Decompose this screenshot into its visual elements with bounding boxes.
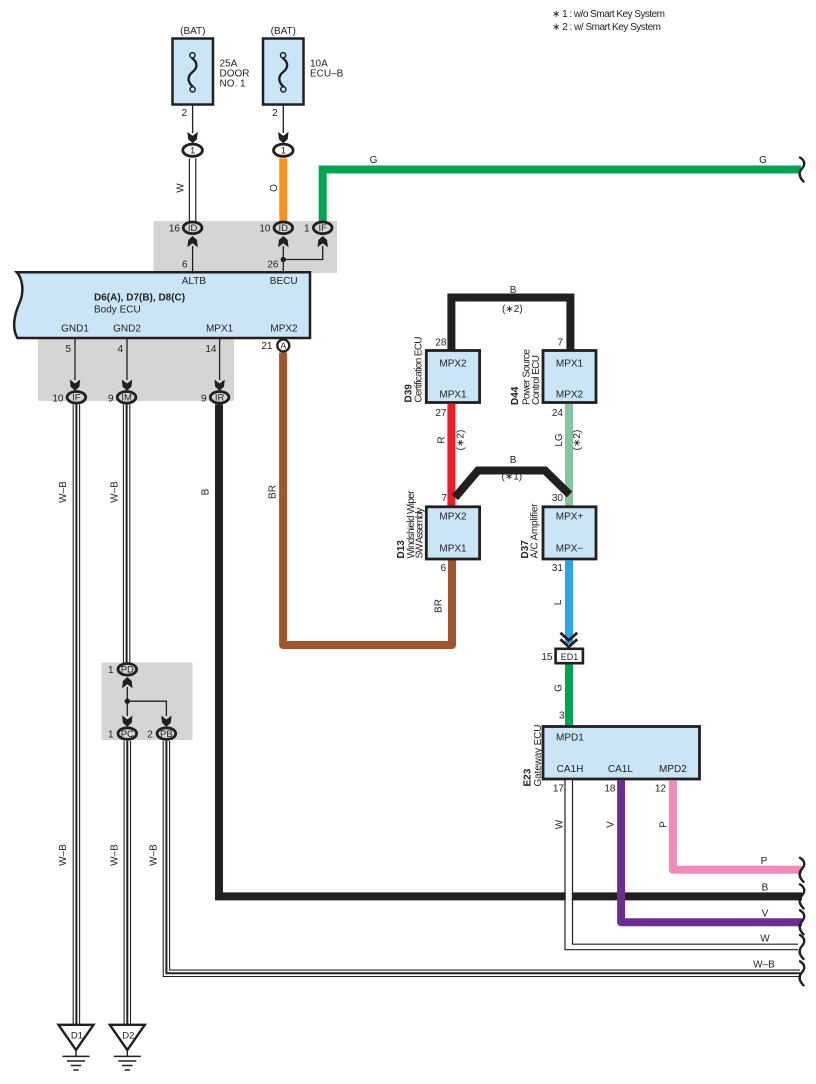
junction node PD/PC/PB (125, 699, 130, 704)
svg-text:2: 2 (181, 108, 187, 119)
svg-text:G: G (759, 155, 767, 166)
amplifier D37 A/C Amplifier (543, 507, 596, 559)
svg-text:MPX2: MPX2 (270, 324, 298, 335)
svg-text:W: W (760, 934, 770, 945)
svg-text:A/C Amplifier: A/C Amplifier (530, 503, 541, 559)
svg-text:D2: D2 (122, 1031, 134, 1042)
svg-text:6: 6 (440, 563, 446, 574)
ground D1 (59, 1025, 94, 1070)
svg-text:BR: BR (268, 485, 279, 499)
svg-text:(∗1): (∗1) (502, 472, 523, 483)
svg-text:V: V (606, 821, 617, 828)
connector oval 1 (fuse 2) (274, 144, 294, 156)
svg-text:MPX2: MPX2 (439, 359, 467, 370)
wire O (fuse2 to 10 ID) (279, 158, 287, 221)
pin 14 wire down (219, 338, 221, 380)
svg-text:7: 7 (441, 493, 447, 504)
wire W-B (PB down and right to edge) (163, 741, 800, 977)
svg-text:R: R (437, 436, 448, 443)
svg-text:2: 2 (272, 108, 278, 119)
svg-text:∗ 1 : w/o Smart Key System: ∗ 1 : w/o Smart Key System (552, 9, 665, 20)
wire LG (D44 MPX2 to D37 MPX+) (565, 404, 573, 507)
connector oval IM (pin 9) (117, 392, 136, 404)
arrow up into IF 1 (318, 236, 328, 247)
ECU D39 Certification ECU (426, 351, 479, 403)
svg-text:CA1H: CA1H (557, 764, 584, 775)
wire R (D39 MPX1 to D13 MPX2) (447, 404, 455, 507)
svg-text:17: 17 (553, 784, 565, 795)
svg-text:MPX−: MPX− (556, 544, 584, 555)
fuse 10A ECU-B (263, 39, 304, 105)
svg-text:D1: D1 (71, 1031, 83, 1042)
svg-text:18: 18 (604, 784, 616, 795)
svg-text:Control ECU: Control ECU (531, 355, 542, 405)
svg-text:MPX1: MPX1 (439, 544, 467, 555)
continuation mark G wire (800, 158, 805, 182)
svg-text:ED1: ED1 (561, 652, 579, 662)
svg-text:9: 9 (108, 393, 114, 404)
connector ED1 (556, 649, 583, 663)
svg-text:MPX1: MPX1 (439, 390, 467, 401)
ground D2 (110, 1025, 145, 1070)
svg-text:Gateway ECU: Gateway ECU (533, 725, 544, 787)
arrow down into PC (122, 716, 132, 727)
svg-text:W–B: W–B (58, 481, 69, 503)
svg-text:P: P (761, 856, 768, 867)
svg-text:B: B (510, 455, 517, 466)
svg-text:(∗2): (∗2) (456, 430, 467, 451)
svg-text:IF: IF (72, 393, 81, 404)
svg-text:15: 15 (541, 652, 553, 663)
svg-text:ID: ID (188, 223, 198, 234)
pin 4 wire down (126, 338, 128, 380)
wire BR (A 21 down, right, up to D13 MPX1) (283, 353, 452, 646)
svg-text:W–B: W–B (58, 844, 69, 866)
svg-text:W–B: W–B (149, 844, 160, 866)
svg-text:(BAT): (BAT) (271, 26, 296, 37)
svg-text:26: 26 (267, 260, 279, 271)
svg-text:6: 6 (182, 260, 188, 271)
inline connector chevrons (560, 633, 577, 647)
svg-text:G: G (554, 684, 565, 692)
svg-text:A: A (280, 341, 286, 351)
svg-text:MPX+: MPX+ (556, 512, 584, 523)
connector oval 1 (fuse 1) (183, 144, 203, 156)
svg-text:CA1L: CA1L (608, 764, 633, 775)
wire fuse1 to connector 1 (192, 105, 194, 134)
svg-text:MPD2: MPD2 (659, 764, 687, 775)
svg-text:MPX2: MPX2 (556, 390, 584, 401)
svg-text:GND2: GND2 (113, 324, 141, 335)
svg-text:MPX2: MPX2 (439, 512, 467, 523)
svg-text:W: W (176, 183, 187, 193)
svg-text:IR: IR (215, 393, 225, 404)
wire V (CA1L down and right to edge) (621, 780, 802, 922)
svg-text:10: 10 (52, 393, 64, 404)
arrow up into PD (122, 677, 132, 688)
svg-text:2: 2 (147, 729, 153, 740)
connector oval PC (pin 1) (118, 728, 137, 740)
connector oval IR (pin 9) (210, 392, 229, 404)
ECU D44 Power Source Control ECU (543, 351, 596, 403)
svg-text:31: 31 (552, 563, 564, 574)
wire B (IR 9 down and right to edge) (219, 404, 802, 896)
svg-text:PD: PD (121, 665, 134, 676)
wire P (MPD2 down and right to edge) (673, 780, 802, 870)
svg-text:W: W (555, 819, 566, 829)
fuse 25A DOOR NO.1 (173, 39, 214, 105)
svg-text:4: 4 (117, 344, 123, 355)
wire BECU pin 26 up (282, 246, 284, 272)
svg-text:D6(A), D7(B), D8(C): D6(A), D7(B), D8(C) (94, 293, 185, 304)
wire L (D37 MPX- down) (565, 560, 573, 644)
arrow up into ID 16 (187, 236, 197, 247)
wire ALTB pin 6 up (192, 246, 194, 272)
arrow up into ID 10 (278, 236, 288, 247)
wire W (fuse1 to 16 ID) (189, 158, 195, 221)
wire branch junction to PB (127, 701, 166, 716)
svg-text:MPX1: MPX1 (556, 359, 584, 370)
svg-text:14: 14 (205, 344, 217, 355)
connector oval IF (pin 1) (313, 222, 332, 234)
svg-text:1: 1 (190, 146, 195, 157)
svg-text:1: 1 (108, 665, 114, 676)
svg-text:MPD1: MPD1 (556, 733, 584, 744)
svg-text:V: V (762, 909, 769, 920)
svg-text:L: L (553, 599, 564, 605)
arrow down into IR 9 (214, 380, 224, 391)
svg-text:W–B: W–B (110, 844, 121, 866)
svg-text:G: G (370, 155, 378, 166)
wire branch to 1 IF (283, 246, 322, 260)
arrow down into IF 10 (70, 380, 80, 391)
connector oval ID (pin 10) (274, 222, 293, 234)
connector shade box (ID/ID/IF row) (154, 221, 338, 273)
svg-text:MPX1: MPX1 (206, 324, 234, 335)
svg-text:ALTB: ALTB (182, 276, 207, 287)
wire B (*1) D13 MPX2 to D37 MPX+ (455, 471, 570, 498)
svg-text:Certification ECU: Certification ECU (414, 337, 425, 403)
svg-text:9: 9 (201, 393, 207, 404)
svg-text:SW Assembly: SW Assembly (415, 508, 426, 559)
wire PD to junction (126, 687, 128, 716)
svg-text:BR: BR (434, 599, 445, 613)
Body ECU box D6(A), D7(B), D8(C) (14, 272, 310, 338)
pin 5 wire down (74, 338, 76, 380)
svg-text:LG: LG (554, 433, 565, 447)
connector shade box (IF/IM/IR row below Body ECU) (38, 338, 234, 401)
wire G (1 IF up and right to edge) (323, 170, 801, 222)
junction node on BECU wire (281, 257, 286, 262)
continuation mark W (800, 935, 805, 959)
svg-text:B: B (510, 285, 517, 296)
svg-text:1: 1 (304, 223, 310, 234)
svg-text:B: B (762, 883, 769, 894)
connector circle A (pin 21) (277, 340, 289, 352)
svg-text:P: P (659, 821, 670, 828)
svg-text:3: 3 (559, 711, 565, 722)
svg-text:1: 1 (281, 146, 286, 157)
continuation mark B (800, 884, 805, 908)
connector oval PB (pin 2) (157, 728, 176, 740)
svg-text:W–B: W–B (753, 959, 775, 970)
svg-text:16: 16 (169, 223, 181, 234)
svg-text:5: 5 (65, 344, 71, 355)
gateway ECU E23 box (543, 727, 700, 780)
svg-text:O: O (269, 184, 280, 192)
svg-text:GND1: GND1 (61, 324, 89, 335)
svg-text:30: 30 (552, 493, 564, 504)
wire fuse2 to connector 1 (282, 105, 284, 134)
svg-text:28: 28 (435, 338, 447, 349)
wire W-B (IF 10 to ground D1) (73, 404, 79, 1025)
continuation mark V (800, 910, 805, 934)
wire G (ED1 to E23 MPD1) (565, 665, 573, 726)
svg-text:IF: IF (318, 223, 327, 234)
svg-text:7: 7 (557, 338, 563, 349)
continuation mark P (800, 858, 805, 882)
svg-text:PB: PB (160, 729, 173, 740)
svg-text:1: 1 (108, 729, 114, 740)
connector oval IF (pin 10) (67, 392, 86, 404)
svg-text:(∗2): (∗2) (572, 430, 583, 451)
svg-text:PC: PC (121, 729, 134, 740)
svg-text:W–B: W–B (110, 481, 121, 503)
wire W-B (PC to ground D2) (124, 741, 130, 1026)
connector oval PD (pin 1) (118, 664, 137, 676)
connector shade box (PD/PC/PB) (102, 663, 193, 741)
svg-text:(BAT): (BAT) (180, 26, 205, 37)
svg-text:12: 12 (655, 784, 667, 795)
switch D13 Windshield Wiper SW Assembly (426, 507, 479, 559)
continuation mark W-B (800, 961, 805, 985)
svg-text:27: 27 (435, 408, 447, 419)
svg-text:IM: IM (121, 393, 132, 404)
svg-text:B: B (201, 488, 212, 495)
svg-text:∗ 2 : w/ Smart Key System: ∗ 2 : w/ Smart Key System (552, 22, 661, 33)
svg-text:21: 21 (261, 341, 273, 352)
wire W (CA1H down and right to edge) (565, 780, 800, 949)
wire W-B (IM 9 to PD) (123, 404, 129, 663)
svg-text:E23: E23 (523, 768, 534, 786)
svg-text:10: 10 (259, 223, 271, 234)
svg-text:(∗2): (∗2) (502, 304, 523, 315)
svg-text:ID: ID (279, 223, 289, 234)
svg-text:D44: D44 (510, 386, 521, 405)
svg-text:24: 24 (552, 408, 564, 419)
svg-text:Body ECU: Body ECU (94, 305, 141, 316)
arrow down into PB (161, 716, 171, 727)
connector oval ID (pin 16) (183, 222, 202, 234)
svg-text:BECU: BECU (270, 276, 298, 287)
wire B (*2) D39 MPX2 to D44 MPX1 (451, 298, 570, 353)
arrow down into IM 9 (122, 380, 132, 391)
